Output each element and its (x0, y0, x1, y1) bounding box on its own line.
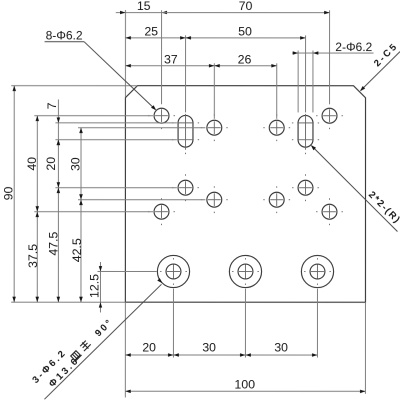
dimension 20 bottom (125, 354, 173, 356)
extension line plate bottom left (11, 301, 125, 303)
extension line col6 (329, 10, 331, 104)
dimension 25 (125, 37, 185, 39)
svg-text:25: 25 (144, 24, 158, 38)
svg-text:47.5: 47.5 (47, 232, 61, 256)
svg-text:50: 50 (238, 25, 252, 39)
extension line hole L3 down (316, 289, 318, 358)
svg-text:40: 40 (25, 157, 39, 171)
dimension 40 (36, 116, 38, 212)
extension line col1 (161, 10, 163, 104)
slot 1 center lines (185, 114, 187, 150)
dimension 30 bottom first (173, 354, 245, 356)
small hole C1 phi6.2 (178, 180, 193, 195)
dimension 90 (13, 86, 15, 303)
extension line col3 (213, 63, 215, 119)
extension line hole L1 down (172, 289, 174, 358)
small hole D1 phi6.2 (207, 192, 222, 207)
dimension 30 left (80, 128, 82, 200)
extension line counterbore row (97, 270, 156, 272)
dimension 50 (186, 37, 306, 39)
extension line plate right bottom (364, 302, 366, 394)
large counterbore 2 phi13.6/phi6.2 (229, 255, 261, 287)
dimension 37.5 (36, 212, 38, 303)
svg-text:20: 20 (44, 157, 58, 171)
slot 2 obround phi6.2x7 (298, 115, 313, 147)
svg-text:100: 100 (234, 377, 255, 391)
extension line plate top left (11, 85, 137, 87)
extension line col4 (276, 63, 278, 119)
plate outline with chamfered top corners (125, 86, 365, 303)
extension line row D (78, 199, 205, 201)
dimension 2-phi6.2 slot width (292, 52, 373, 54)
dimension 37 (125, 65, 214, 67)
counterbore 3 center lines (311, 271, 324, 273)
dimension 70 (162, 12, 330, 14)
label 2-C5 with leader to chamfer (361, 52, 400, 91)
extension line plate left top (124, 10, 126, 97)
extension line slot right edge (312, 51, 314, 113)
small hole B2 phi6.2 (269, 120, 284, 135)
svg-text:37: 37 (164, 52, 178, 66)
dimension 100 (125, 390, 365, 392)
slot 1 obround phi6.2x7 (178, 115, 193, 147)
svg-text:30: 30 (202, 341, 216, 355)
small hole A1 phi6.2 (154, 108, 169, 123)
svg-text:2-Φ6.2: 2-Φ6.2 (335, 40, 372, 54)
extension line slot top (55, 122, 176, 124)
large counterbore 1 phi13.6/phi6.2 (157, 255, 189, 287)
dimension 20 left (57, 140, 59, 188)
small hole E2 phi6.2 (322, 204, 337, 219)
svg-text:30: 30 (274, 341, 288, 355)
extension line row E (34, 211, 153, 213)
svg-text:15: 15 (137, 0, 151, 13)
dimension 15 (116, 12, 162, 14)
svg-text:70: 70 (239, 0, 253, 13)
small hole C2 phi6.2 (298, 180, 313, 195)
svg-text:42.5: 42.5 (70, 238, 84, 262)
small hole D2 phi6.2 (269, 192, 284, 207)
extension line slot bottom (55, 139, 176, 141)
svg-text:30: 30 (69, 157, 83, 171)
extension line row B (78, 127, 205, 129)
svg-text:7: 7 (45, 102, 59, 109)
dimension 12.5 (99, 262, 101, 313)
svg-text:12.5: 12.5 (87, 274, 101, 298)
extension line row A (34, 115, 153, 117)
cjk counterbore glyphs (69, 339, 92, 362)
svg-text:90: 90 (1, 186, 15, 200)
small hole E1 phi6.2 (154, 204, 169, 219)
dimension 26 (214, 65, 276, 67)
svg-text:20: 20 (142, 341, 156, 355)
extension line row C (55, 187, 176, 189)
dimension 30 bottom second (245, 354, 317, 356)
small hole A2 phi6.2 (322, 108, 337, 123)
svg-text:8-Φ6.2: 8-Φ6.2 (46, 28, 83, 42)
svg-text:26: 26 (238, 52, 252, 66)
extension line slot left edge (297, 51, 299, 113)
slot 2 center lines (305, 114, 307, 150)
counterbore 1 center lines (167, 270, 180, 272)
extension line plate left bottom (124, 302, 126, 397)
svg-text:37.5: 37.5 (26, 244, 40, 268)
dimension 7 slot length (57, 99, 59, 146)
extension line hole L2 down (244, 289, 246, 358)
large counterbore 3 phi13.6/phi6.2 (301, 255, 333, 287)
small hole B1 phi6.2 (207, 120, 222, 135)
dimension 42.5 (80, 200, 82, 303)
counterbore 2 center lines (239, 271, 252, 273)
extension line col2 (185, 35, 187, 112)
dimension 47.5 (57, 188, 59, 303)
label 2*2-(R) with leader to slot (312, 146, 398, 232)
label 3-phi6.2 counterbore with leader (44, 284, 161, 399)
extension line col5 (305, 35, 307, 112)
